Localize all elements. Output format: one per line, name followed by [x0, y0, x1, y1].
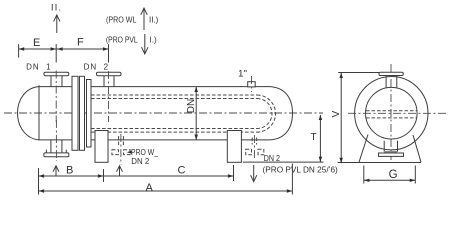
label I.) — [150, 35, 157, 44]
C right arrow — [228, 174, 234, 177]
nozzle pointer arrow 1 — [53, 166, 59, 176]
dimension T — [319, 115, 322, 163]
drain nozzle hidden neck — [252, 138, 256, 145]
saddle support left — [95, 131, 108, 163]
svg-text:DN 2: DN 2 — [131, 156, 149, 166]
label PRO W DN 2 — [131, 156, 149, 166]
A right extension — [291, 164, 293, 195]
label G — [389, 169, 398, 181]
end view bottom nozzle raised face — [384, 151, 397, 153]
saddle support right — [227, 131, 241, 163]
E arrows — [19, 47, 57, 50]
drain nozzle hidden flange — [246, 149, 264, 155]
label DN 1 — [26, 63, 51, 72]
svg-text:V: V — [331, 110, 342, 117]
left extension line ABC — [38, 168, 40, 195]
bottom nozzle N2 hidden flange — [112, 150, 130, 155]
end view top nozzle flange — [379, 72, 403, 75]
U-bend inner dashed arc — [257, 99, 272, 129]
dimension G line — [364, 179, 416, 182]
label DN rotated — [186, 99, 197, 113]
C right extension — [233, 165, 235, 181]
svg-text:DN 2: DN 2 — [84, 63, 109, 72]
label II.) — [149, 15, 159, 24]
svg-text:C: C — [178, 164, 186, 176]
label T — [311, 132, 317, 143]
nozzle DN1 centerline — [55, 44, 57, 122]
bottom nozzle N1 centerline — [55, 120, 57, 161]
end view bottom nozzle neck — [384, 141, 397, 152]
shell bottom line — [39, 139, 269, 141]
dimension E F line — [19, 48, 109, 50]
svg-text:T: T — [311, 132, 317, 143]
svg-text:I.): I.) — [150, 35, 157, 44]
vessel head (left dished end) — [18, 87, 40, 140]
B right arrow and tick — [98, 169, 104, 182]
svg-text:F: F — [77, 37, 84, 49]
partition dashed line upper — [366, 110, 417, 112]
annotation PRO PVL — [106, 35, 138, 44]
label F — [77, 37, 84, 49]
bottom nozzle N1 flange — [44, 150, 69, 157]
arrow WL up — [141, 8, 147, 30]
girth flange ring A — [72, 76, 78, 150]
dimension A line — [39, 189, 293, 192]
svg-text:G: G — [389, 169, 398, 181]
svg-text:E: E — [33, 37, 40, 49]
B left arrow — [39, 174, 45, 177]
base extension line left — [243, 161, 324, 163]
arrow PVL down — [142, 34, 148, 54]
svg-text:II.: II. — [51, 3, 61, 13]
label DN 2 top — [84, 63, 109, 72]
bottom nozzle N2 hidden neck — [119, 136, 124, 146]
svg-text:(PRO PVL: (PRO PVL — [106, 35, 138, 44]
dimension G extensions — [364, 166, 416, 184]
tube dashed line top inner — [91, 98, 257, 100]
end view top nozzle neck — [386, 76, 397, 88]
F arrows — [57, 47, 109, 50]
girth flange ring B — [80, 76, 85, 150]
coupling 1 inch — [248, 76, 256, 92]
bottom nozzle N2 centerline — [120, 134, 122, 165]
base line right — [338, 162, 421, 164]
label E — [33, 37, 40, 49]
centerline main horizontal — [4, 112, 323, 114]
shell right cap — [269, 87, 293, 140]
dimension DN vertical — [194, 87, 198, 140]
nozzle DN2 neck — [104, 76, 114, 87]
label C — [178, 164, 186, 176]
svg-text:B: B — [66, 164, 73, 176]
end view bottom nozzle flange — [379, 153, 404, 156]
label B — [66, 164, 73, 176]
svg-text:DN 1: DN 1 — [26, 63, 51, 72]
annotation PRO WL — [106, 15, 137, 24]
end view outer circle — [355, 77, 428, 150]
svg-text:1": 1" — [238, 69, 247, 79]
saddle trapezoid left side — [359, 135, 368, 163]
end view horizontal centerline — [348, 112, 446, 114]
svg-text:DN: DN — [186, 99, 197, 113]
svg-text:(PRO PVL DN 25/’6): (PRO PVL DN 25/’6) — [263, 166, 339, 175]
tubesheet — [87, 80, 92, 148]
dimension B C line — [39, 175, 234, 177]
tube dashed line bottom outer — [91, 131, 257, 133]
bottom nozzle N1 neck — [51, 140, 62, 153]
nozzle DN2 flange — [97, 72, 122, 76]
nozzle DN1 flange — [44, 72, 69, 76]
leader arrow PRO W — [127, 151, 132, 154]
nozzle DN1 neck — [51, 76, 62, 87]
arrow II up — [54, 15, 60, 33]
annotation PRO PVL DN 25 — [263, 166, 339, 175]
tube dashed line top outer — [91, 94, 257, 96]
dimension V line — [340, 73, 343, 164]
tube dashed line bottom inner — [91, 128, 257, 130]
nozzle DN2 centerline — [108, 44, 110, 122]
flange top extension line — [338, 72, 381, 74]
partition dashed line lower — [366, 117, 417, 119]
end view vertical centerline — [390, 64, 392, 160]
saddle trapezoid right side — [413, 135, 421, 162]
label A — [146, 182, 154, 194]
E left extension — [18, 44, 20, 58]
svg-text:A: A — [146, 182, 154, 194]
shell top line — [39, 86, 269, 88]
nozzle pointer arrow 2 — [117, 166, 123, 176]
end view inner circle — [366, 87, 418, 139]
drain nozzle centerline — [253, 135, 255, 160]
label II. — [51, 3, 61, 13]
U-bend outer dashed arc — [257, 95, 276, 132]
svg-text:(PRO WL: (PRO WL — [106, 15, 137, 24]
label drain DN 2 — [264, 154, 281, 163]
label 1" — [238, 69, 247, 79]
label PRO W — [131, 148, 158, 157]
head weld line — [38, 85, 40, 140]
svg-text:II.): II.) — [149, 15, 159, 24]
label V rotated — [331, 110, 342, 117]
flow arrow down below drain — [251, 165, 257, 182]
